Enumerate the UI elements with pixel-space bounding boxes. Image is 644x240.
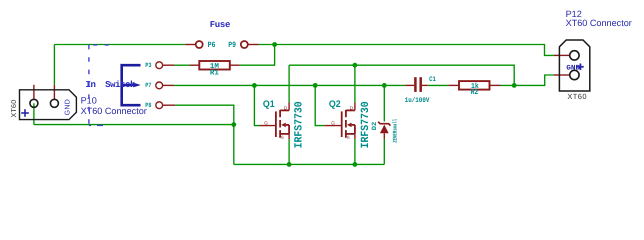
wire rail1 right (fuse P9 to P12 pin1) xyxy=(259,45,555,56)
junction Q2 gate tap xyxy=(313,83,318,88)
transistor Q2 xyxy=(342,110,355,138)
svg-text:P7: P7 xyxy=(145,82,151,89)
pin circle P8 xyxy=(156,102,163,109)
svg-text:Fuse: Fuse xyxy=(210,20,230,30)
diode D2 zener bar xyxy=(378,122,390,126)
P10 pad 2 xyxy=(50,99,58,107)
P12 plus mark xyxy=(577,64,584,71)
wire C1 to R2 xyxy=(428,84,449,86)
svg-text:GND: GND xyxy=(65,99,72,115)
junction Q1 source rail4 xyxy=(287,162,292,167)
svg-text:D2: D2 xyxy=(371,122,378,131)
P12 pad 1 xyxy=(570,51,579,60)
junction Q2 drain on rail2 xyxy=(353,63,358,68)
pin stub Q1 source xyxy=(288,134,290,139)
pin circle P3 xyxy=(156,62,163,69)
wire Q1 gate feed xyxy=(254,85,259,125)
pin circle P7 xyxy=(156,82,163,89)
P12 pad 2 xyxy=(570,70,579,79)
switch arrow xyxy=(133,83,141,88)
svg-text:S: S xyxy=(347,135,350,140)
pin stub P7 xyxy=(163,84,175,86)
wire input pin2 vertical xyxy=(53,45,55,85)
svg-text:IRFS7730: IRFS7730 xyxy=(360,101,372,148)
svg-text:S: S xyxy=(281,135,284,140)
pin stub P12 pin1 xyxy=(554,54,569,56)
wire R2 to P12 pin2 xyxy=(501,75,555,85)
svg-text:P6: P6 xyxy=(208,41,216,50)
wire rail2 right xyxy=(289,65,514,85)
pin circle P6 xyxy=(196,41,203,48)
wire D2 anode down xyxy=(383,139,385,165)
pin stub P8 xyxy=(163,104,176,106)
wire R1 to rail1 tap xyxy=(240,45,275,66)
connector P10 body xyxy=(20,90,77,120)
wire Q1 drain column xyxy=(288,65,290,102)
capacitor C1 xyxy=(415,77,420,92)
transistor Q1 xyxy=(276,110,289,138)
P10 pad 1 xyxy=(30,99,38,107)
pin stub R1 right xyxy=(230,64,240,66)
pin stub R2 right xyxy=(490,84,501,86)
wire P3 to R1 xyxy=(174,64,189,66)
svg-text:In: In xyxy=(86,80,96,90)
pin stub C1 right xyxy=(422,84,428,86)
pin stub P10 pin1 xyxy=(33,85,35,100)
resistor R2 xyxy=(459,81,490,90)
pin stub Q1 drain xyxy=(288,103,290,111)
svg-text:G: G xyxy=(331,120,335,125)
svg-text:C1: C1 xyxy=(429,76,436,84)
switch bracket xyxy=(122,65,141,105)
pin stub R1 left xyxy=(189,64,199,66)
svg-text:XT60: XT60 xyxy=(567,92,587,101)
pin stub Q2 gate xyxy=(324,125,342,127)
junction D2 rail3 xyxy=(382,83,387,88)
wire Q2 source down xyxy=(354,139,356,164)
Q2 bulk arrow xyxy=(347,123,352,128)
junction Q2 source rail4 xyxy=(353,162,358,167)
pin circle P9 xyxy=(241,41,248,48)
resistor R1 xyxy=(199,61,230,70)
pin stub D2 anode xyxy=(383,133,385,139)
wire bottom-left rail xyxy=(34,124,234,126)
junction Q1 gate tap xyxy=(252,83,257,88)
junction bottom-left rail xyxy=(231,122,236,127)
wire P8 column xyxy=(175,105,234,164)
pin stub P12 pin2 xyxy=(554,74,569,76)
pin stub Q2 drain xyxy=(354,103,356,111)
pin stub Q1 gate xyxy=(260,125,276,127)
pin stub fuse P9 right xyxy=(248,44,259,46)
P10 plus mark xyxy=(21,109,29,117)
dashed group box xyxy=(89,45,111,126)
wire D2 column top xyxy=(383,85,385,121)
pin stub P3 xyxy=(163,64,175,66)
D2 triangle xyxy=(380,125,389,134)
wire rail3 (P7 row) xyxy=(174,84,405,86)
Q1 bulk arrow xyxy=(281,123,286,128)
svg-text:XT60 Connector: XT60 Connector xyxy=(81,106,147,116)
junction rail1/rail2 xyxy=(272,42,277,47)
svg-text:ZENERsmall: ZENERsmall xyxy=(392,118,399,143)
wire Q2 gate feed xyxy=(315,85,324,125)
pin stub C1 left xyxy=(405,84,414,86)
wire Q1 source down xyxy=(288,139,290,164)
pin stub fuse P6 left xyxy=(185,44,195,46)
svg-text:XT60: XT60 xyxy=(11,100,18,118)
svg-text:1u/100V: 1u/100V xyxy=(405,96,430,105)
svg-text:R2: R2 xyxy=(471,88,479,97)
svg-text:R1: R1 xyxy=(210,70,220,78)
svg-text:P3: P3 xyxy=(145,62,151,69)
pin stub Q2 source xyxy=(354,134,356,139)
wire rail1 left (input to fuse P6) xyxy=(54,44,185,46)
svg-text:IRFS7730: IRFS7730 xyxy=(294,101,306,148)
junction rail2/rail3 xyxy=(512,83,517,88)
svg-text:XT60 Connector: XT60 Connector xyxy=(566,18,632,28)
svg-text:P9: P9 xyxy=(228,41,236,50)
svg-text:Switch: Switch xyxy=(105,80,135,90)
wire rail4 (sources) xyxy=(234,163,384,165)
pin stub R2 left xyxy=(448,84,459,86)
pin stub P10 pin2 xyxy=(53,85,55,100)
svg-text:GND: GND xyxy=(566,65,580,73)
svg-text:Q2: Q2 xyxy=(329,99,341,110)
svg-text:Q1: Q1 xyxy=(263,99,275,110)
svg-text:G: G xyxy=(264,120,268,125)
connector P12 body xyxy=(559,40,589,91)
wire plus-in down xyxy=(33,103,35,124)
wire Q2 drain column xyxy=(354,65,356,102)
